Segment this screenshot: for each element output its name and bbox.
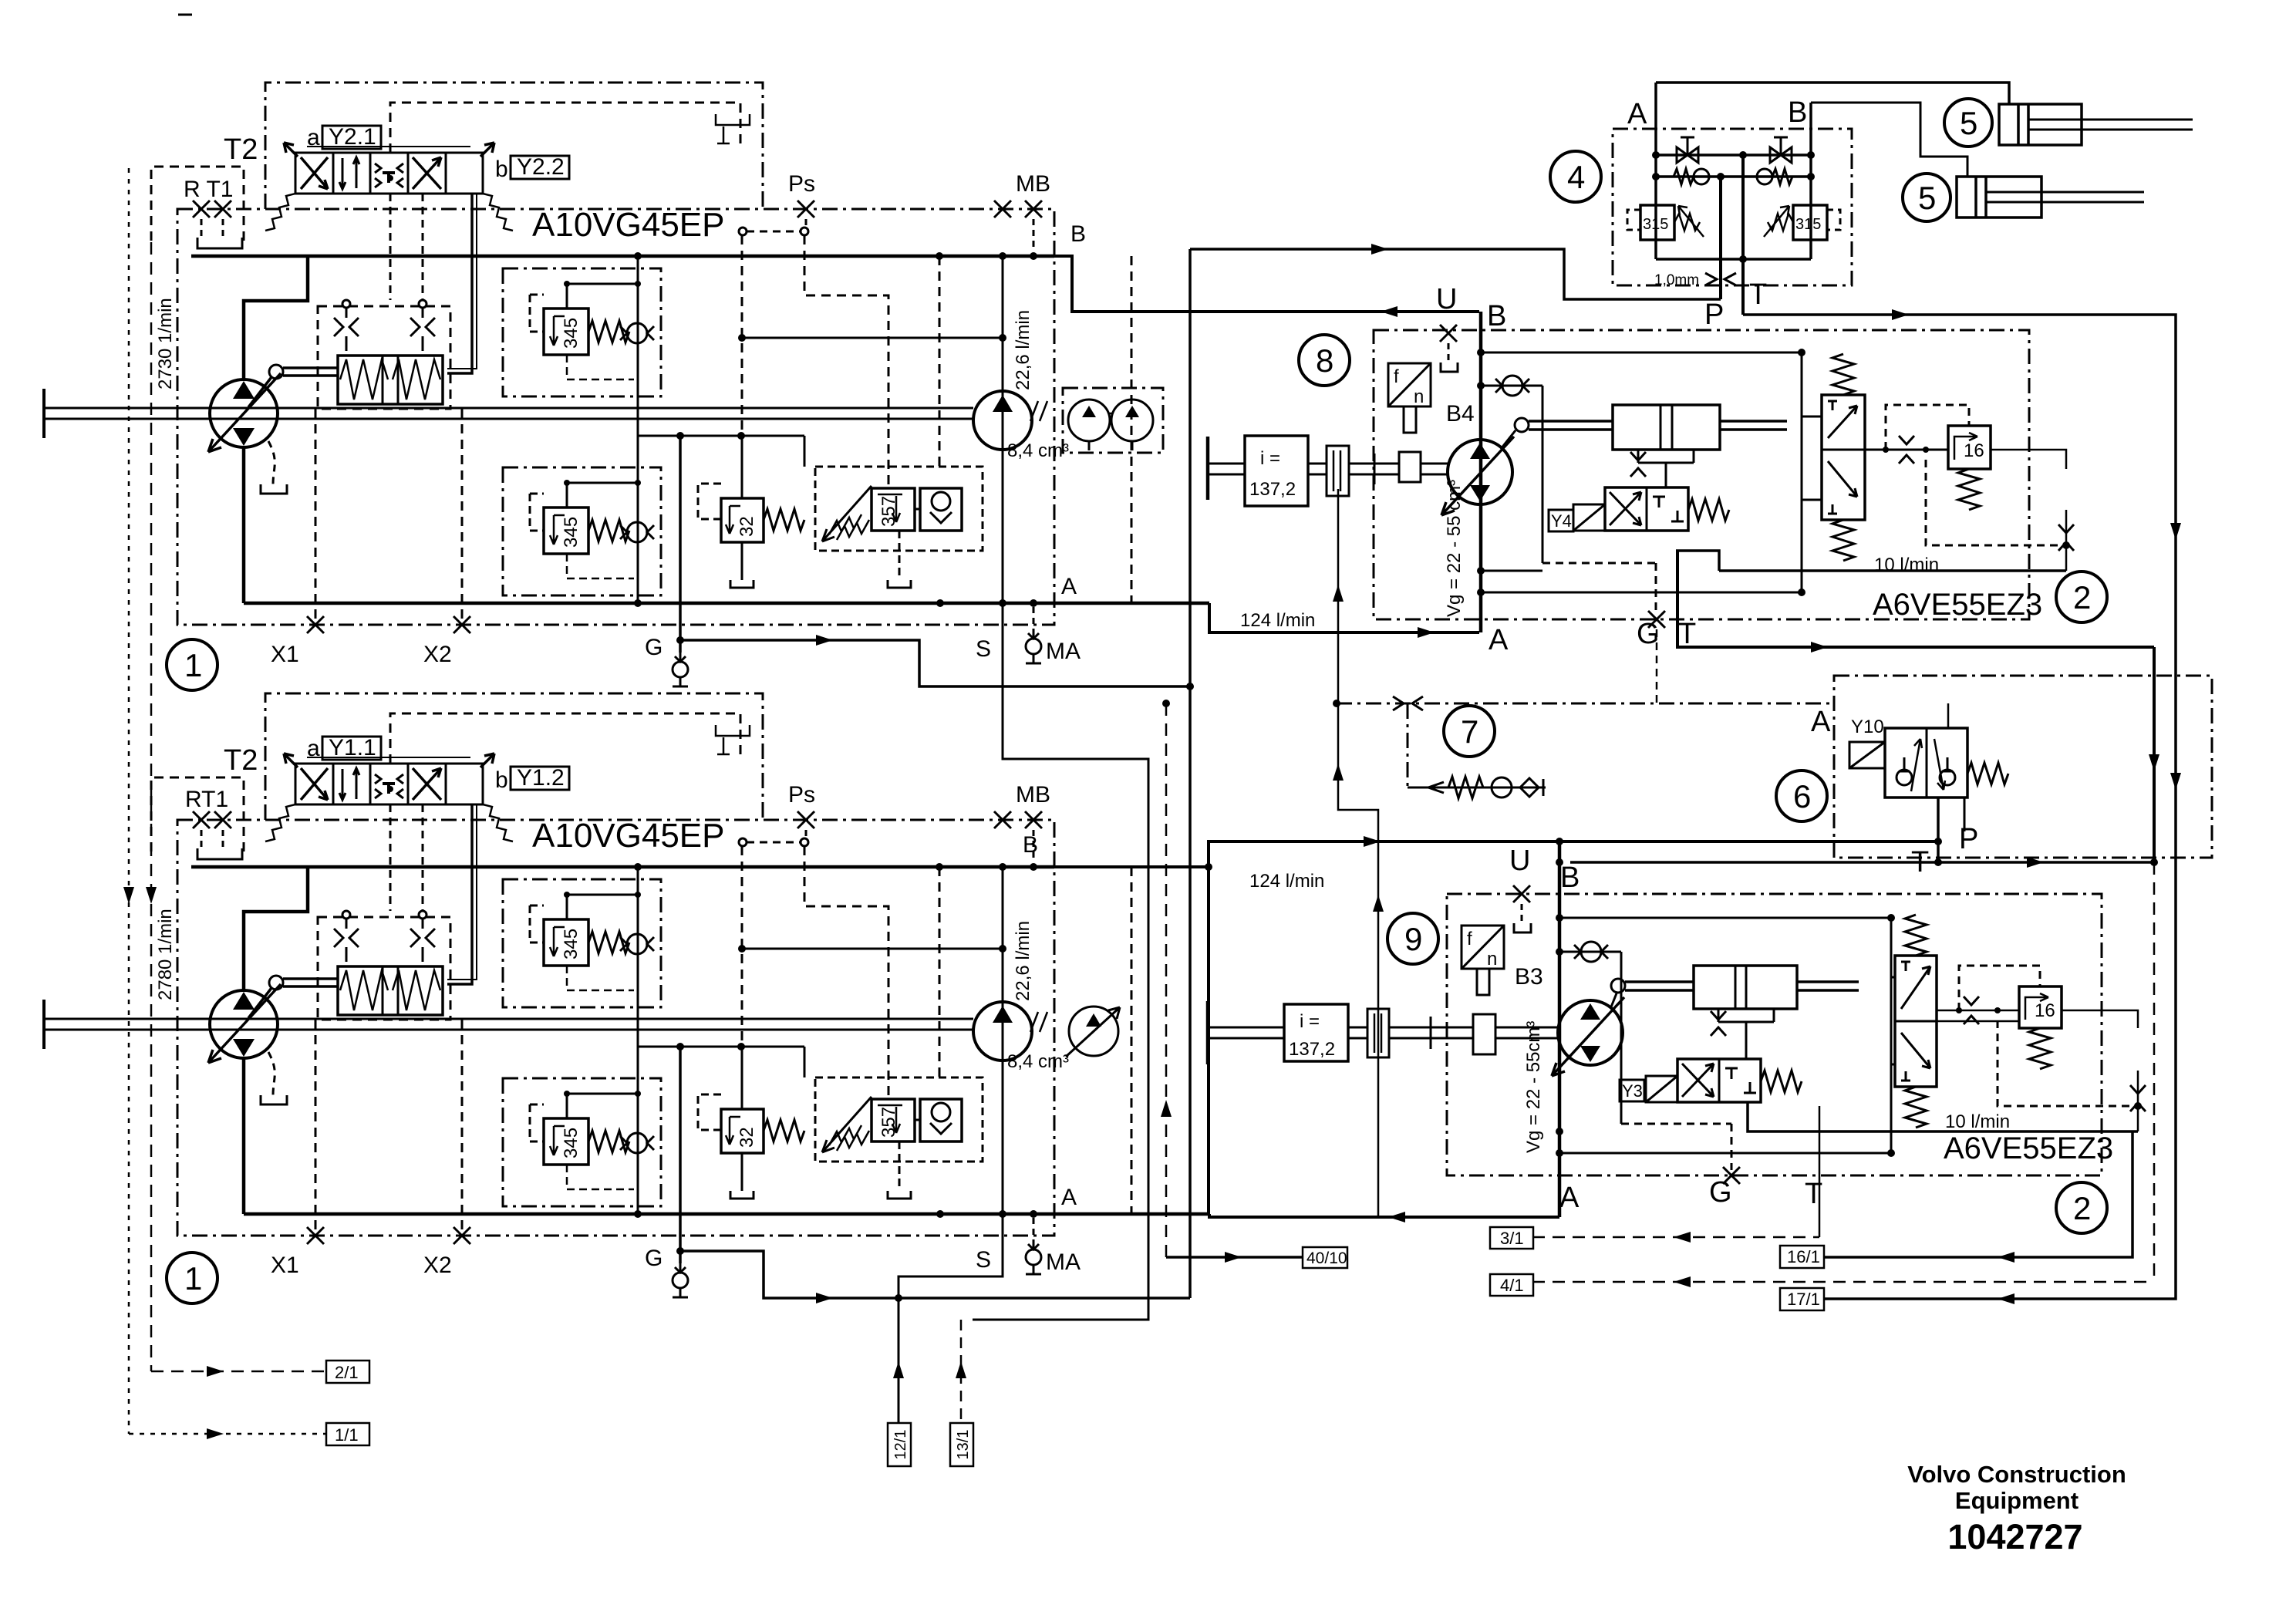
svg-text:A10VG45EP: A10VG45EP (532, 206, 725, 244)
reference box 1/1 (326, 1423, 369, 1445)
svg-text:1,0mm: 1,0mm (1654, 272, 1699, 288)
port T line (1677, 551, 2154, 647)
riser to 4/1 (2153, 862, 2156, 1282)
drain line to 1/1 (129, 168, 326, 1434)
orifice 1,0mm (1705, 273, 1736, 285)
speed sensor B4 (1388, 363, 1431, 433)
port G (1655, 563, 1657, 614)
svg-text:2730 1/min: 2730 1/min (155, 298, 176, 389)
wire to 40/10 (1165, 703, 1168, 1257)
item balloon 6 (1776, 771, 1827, 821)
item balloon 4 (1550, 151, 1601, 202)
wire block4 T return (1743, 313, 2174, 316)
svg-text:B3: B3 (1515, 964, 1543, 990)
svg-text:6: 6 (1793, 778, 1811, 814)
motor 9 A6VE55EZ3 border (1447, 894, 2102, 1175)
motor 8 main port line (1479, 312, 1483, 632)
block 6 P line (1964, 798, 1966, 831)
svg-text:X2: X2 (423, 1253, 452, 1278)
svg-text:T2: T2 (224, 133, 258, 166)
svg-text:5: 5 (1918, 180, 1936, 216)
relief valve 315 right (1764, 177, 1840, 259)
shuttle valve 3/2 (1802, 354, 1865, 561)
svg-text:Y2.1: Y2.1 (329, 124, 376, 150)
svg-text:P: P (1959, 823, 1978, 855)
check throttle valve 7 (1408, 703, 1546, 798)
svg-text:Volvo Construction: Volvo Construction (1907, 1461, 2126, 1488)
port G (motor 9) (1731, 1124, 1733, 1170)
throttle valve right (1770, 137, 1792, 163)
svg-text:X1: X1 (271, 1253, 299, 1278)
svg-text:A: A (1811, 706, 1831, 738)
item balloon 7 (1444, 706, 1495, 757)
pump 2 labels (155, 736, 1081, 1278)
svg-text:40/10: 40/10 (1306, 1249, 1347, 1267)
pump 1 auxiliary gear pumps (1063, 388, 1163, 453)
flushing check valve (motor 9) (1559, 951, 1621, 953)
wire motor8 T to motor9 B (1570, 861, 2154, 864)
item balloon 1 (167, 639, 217, 690)
reference box 13/1 (950, 1423, 973, 1466)
svg-text:n: n (1487, 949, 1497, 969)
svg-text:b: b (495, 157, 508, 182)
wire pump1 A to motor8 A (1209, 603, 1479, 632)
svg-text:2: 2 (2073, 579, 2091, 615)
block 6 labels (1811, 706, 1978, 878)
svg-text:8,4 cm³: 8,4 cm³ (1007, 1051, 1069, 1072)
wire pump2 S to 12/1 (899, 867, 1003, 1423)
riser G gallery (1188, 249, 1192, 1298)
svg-text:P: P (1704, 298, 1724, 331)
svg-text:B: B (1023, 832, 1038, 858)
svg-text:Ps: Ps (788, 171, 815, 197)
solenoid label Y2.1 (322, 124, 381, 150)
svg-text:Y1.2: Y1.2 (517, 765, 565, 791)
svg-text:X1: X1 (271, 642, 299, 667)
svg-text:B: B (1560, 862, 1580, 894)
item balloon 5 lower (1903, 174, 1950, 221)
port T (motor 9) (1819, 1106, 1821, 1237)
solenoid label Y1.2 (495, 765, 569, 793)
svg-text:T: T (1805, 1178, 1822, 1210)
svg-text:22,6 l/min: 22,6 l/min (1013, 921, 1033, 1001)
gearbox flushing line (1338, 489, 1378, 1217)
wire to 3/1 (1532, 1236, 1819, 1239)
svg-text:8: 8 (1316, 342, 1333, 379)
motor 8 A6VE55EZ3 border (1374, 330, 2029, 619)
svg-text:S: S (976, 636, 991, 662)
svg-text:7: 7 (1461, 713, 1478, 750)
svg-text:U: U (1509, 845, 1530, 877)
svg-text:16/1: 16/1 (1787, 1247, 1820, 1266)
svg-text:Y2.2: Y2.2 (517, 154, 565, 180)
svg-text:Y4: Y4 (1551, 511, 1572, 531)
svg-text:22,6 l/min: 22,6 l/min (1013, 310, 1033, 390)
svg-text:MB: MB (1016, 171, 1050, 197)
block 6 T line (1937, 798, 1940, 862)
riser 13/1 (960, 1320, 963, 1423)
flushing check valve (1481, 385, 1542, 387)
wire to 16/1 (1824, 1131, 2132, 1257)
hydraulic motor 9 (1558, 1000, 1623, 1065)
reference box 4/1 (1490, 1274, 1533, 1296)
gearbox i=137,2 (1208, 436, 1308, 506)
stroke cylinder (motor 9) (1610, 966, 1859, 1059)
10 l/min line (motor 9) (1748, 1102, 2138, 1131)
svg-text:16: 16 (1964, 440, 1984, 461)
shaft coupling (1308, 446, 1448, 496)
brake shuttle block 4 border (1613, 129, 1852, 285)
svg-text:A6VE55EZ3: A6VE55EZ3 (1873, 588, 2042, 622)
svg-text:1: 1 (184, 647, 202, 683)
svg-text:5: 5 (1960, 105, 1977, 141)
bypass valve block 6 border (1834, 676, 2212, 858)
svg-text:G: G (645, 1246, 663, 1271)
reference box 40/10 (1303, 1247, 1347, 1268)
svg-text:13/1: 13/1 (955, 1430, 972, 1460)
svg-text:a: a (307, 736, 320, 761)
svg-text:2: 2 (2073, 1190, 2091, 1226)
svg-text:MA: MA (1046, 639, 1081, 664)
relief valve 315 left (1627, 177, 1704, 259)
title block text (1907, 1461, 2126, 1556)
svg-text:B4: B4 (1446, 401, 1475, 427)
proportional valve Y3 (1620, 1059, 1802, 1102)
solenoid label Y2.2 (495, 154, 569, 182)
svg-text:1/1: 1/1 (335, 1425, 359, 1445)
svg-text:3/1: 3/1 (1500, 1229, 1524, 1248)
svg-text:T: T (1749, 278, 1767, 311)
proportional valve Y4 (1549, 487, 1729, 531)
svg-text:A10VG45EP: A10VG45EP (532, 817, 725, 855)
svg-text:1: 1 (184, 1260, 202, 1297)
wire pump2 G (680, 1251, 1190, 1298)
solenoid label Y1.1 (322, 735, 381, 760)
port U (motor 9) (1513, 885, 1530, 902)
svg-text:A: A (1489, 624, 1509, 656)
svg-text:A: A (1627, 98, 1647, 130)
svg-text:137,2: 137,2 (1289, 1039, 1335, 1060)
wire pump1 S to 13/1 (973, 256, 1148, 1320)
svg-text:G: G (645, 635, 663, 660)
svg-text:Vg = 22 - 55cm³: Vg = 22 - 55cm³ (1523, 1021, 1544, 1153)
port P block4 (1719, 177, 1722, 299)
pump 1 labels (155, 125, 1086, 667)
wire G gallery to P block4 (1190, 249, 1721, 299)
reference box 16/1 (1780, 1246, 1824, 1268)
svg-text:f: f (1467, 929, 1472, 949)
wire pump2 B to motor9 B (1054, 841, 1938, 1214)
cylinder feed line 2 (1811, 103, 1967, 177)
svg-text:2780 1/min: 2780 1/min (155, 909, 176, 1000)
pressure relief 16 (1865, 405, 2074, 571)
cylinder 5 lower (1957, 177, 2144, 218)
svg-text:A: A (1559, 1182, 1580, 1214)
solenoid valve Y10 (1849, 728, 2008, 798)
svg-text:T2: T2 (224, 744, 258, 777)
pump 2 A10VG45EP circuit (44, 693, 1209, 1297)
svg-text:B: B (1487, 300, 1506, 332)
svg-text:8,4 cm³: 8,4 cm³ (1007, 440, 1069, 461)
gearbox i=137,2 (motor 9) (1208, 1001, 1348, 1064)
svg-text:X2: X2 (423, 642, 452, 667)
motor 9 internal lines (1559, 918, 1891, 1153)
check-spring right (1757, 169, 1772, 184)
item balloon 2 (2056, 572, 2107, 622)
motor 8 internal lines (1481, 352, 1802, 592)
svg-text:17/1: 17/1 (1787, 1290, 1820, 1309)
wire T return to 17/1 (1824, 315, 2176, 1299)
svg-text:MB: MB (1016, 782, 1050, 808)
wire pump2 A to motor9 A (1209, 1214, 1559, 1217)
10 l/min line (1676, 551, 2066, 571)
svg-text:4: 4 (1567, 159, 1585, 195)
svg-text:315: 315 (1643, 216, 1668, 233)
item balloon 1 (pump 2) (167, 1253, 217, 1303)
svg-text:1042727: 1042727 (1947, 1517, 2082, 1556)
svg-text:124 l/min: 124 l/min (1249, 871, 1324, 892)
wire pump1 G (680, 640, 1190, 686)
motor 8 labels (1240, 283, 2042, 656)
item balloon 5 upper (1944, 99, 1992, 147)
svg-text:i =: i = (1260, 448, 1280, 469)
pilot coupling line (1337, 703, 1834, 705)
stroke cylinder (1501, 405, 1787, 487)
svg-text:Ps: Ps (788, 782, 815, 808)
pump 2 auxiliary variable pump (1066, 1007, 1120, 1057)
svg-text:Y3: Y3 (1622, 1081, 1643, 1101)
svg-text:Y1.1: Y1.1 (329, 735, 376, 760)
cylinder feed line 1 (1656, 83, 2009, 104)
drain line to 2/1 (151, 242, 326, 1371)
port U (1440, 325, 1457, 342)
svg-text:137,2: 137,2 (1249, 479, 1296, 500)
reference box 3/1 (1490, 1227, 1533, 1249)
svg-text:16: 16 (2035, 1000, 2055, 1021)
wire to 4/1 (1532, 1281, 2154, 1283)
reference box 2/1 (326, 1361, 369, 1383)
item balloon 2 (motor 9) (2056, 1182, 2107, 1233)
svg-text:Equipment: Equipment (1955, 1487, 2079, 1514)
svg-text:Y10: Y10 (1851, 717, 1884, 737)
speed sensor B3 (1462, 926, 1504, 995)
svg-text:315: 315 (1795, 216, 1821, 233)
wire pump1 B to motor8 B (1054, 256, 1479, 312)
Y10 pilot line up (1947, 703, 1950, 728)
svg-text:f: f (1394, 366, 1399, 387)
item balloon 9 (1387, 913, 1438, 964)
motor 9 main port line (1558, 841, 1562, 1217)
svg-text:12/1: 12/1 (892, 1430, 909, 1460)
throttle valve left (1677, 137, 1698, 163)
check-spring left (1674, 169, 1694, 184)
svg-text:T: T (1678, 618, 1696, 650)
block 4 port lines (1656, 83, 1811, 259)
svg-text:MA: MA (1046, 1249, 1081, 1275)
svg-text:2/1: 2/1 (335, 1363, 359, 1382)
svg-text:a: a (307, 125, 320, 150)
svg-text:G: G (1709, 1176, 1732, 1209)
shaft coupling (motor 9) (1348, 1009, 1558, 1057)
cylinder 5 upper (1999, 104, 2193, 145)
riser return right (2153, 647, 2156, 862)
svg-text:Vg = 22 - 55 cm³: Vg = 22 - 55 cm³ (1444, 480, 1465, 617)
shuttle valve 3/2 (motor 9) (1891, 915, 1937, 1128)
svg-text:A: A (1061, 1185, 1077, 1210)
svg-text:10 l/min: 10 l/min (1945, 1111, 2010, 1132)
reference box 17/1 (1780, 1288, 1824, 1310)
svg-text:10 l/min: 10 l/min (1874, 555, 1939, 575)
motor 9 labels (1249, 845, 2113, 1214)
svg-text:124 l/min: 124 l/min (1240, 610, 1315, 631)
port T block4 (1741, 155, 1745, 315)
pressure relief 16 (motor 9) (1937, 966, 2146, 1131)
svg-text:B: B (1070, 221, 1086, 247)
svg-text:9: 9 (1404, 921, 1422, 957)
reference box 12/1 (888, 1423, 911, 1466)
svg-text:A: A (1061, 574, 1077, 599)
tick mark top left (178, 14, 192, 16)
pilot line motor8 G (1656, 629, 1658, 703)
svg-text:b: b (495, 767, 508, 793)
hydraulic motor (1448, 440, 1512, 504)
svg-text:S: S (976, 1247, 991, 1273)
svg-text:A6VE55EZ3: A6VE55EZ3 (1944, 1131, 2113, 1165)
pump 1 A10VG45EP circuit (44, 83, 1209, 686)
svg-text:R T1: R T1 (184, 177, 233, 202)
svg-text:4/1: 4/1 (1500, 1276, 1524, 1295)
svg-text:RT1: RT1 (185, 787, 228, 812)
item balloon 8 (1299, 335, 1350, 386)
svg-text:B: B (1788, 96, 1807, 129)
svg-text:i =: i = (1300, 1011, 1320, 1032)
svg-text:n: n (1414, 386, 1424, 407)
